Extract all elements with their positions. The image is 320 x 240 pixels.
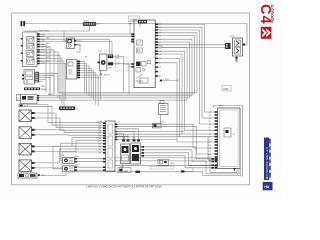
- ECU side stub wire: [160, 79, 178, 82]
- relay unit left pins: [21, 38, 23, 62]
- right block left pins: [215, 111, 218, 166]
- svg-text:111: 111: [98, 141, 101, 143]
- svg-text:2 GB: 2 GB: [115, 57, 120, 59]
- crank sensor 1313: [18, 173, 46, 178]
- svg-text:1135: 1135: [98, 121, 102, 123]
- svg-text:HU: HU: [264, 185, 270, 189]
- wire bottom band to nested corners: [115, 158, 215, 176]
- wire drop to ECU header: [130, 24, 140, 35]
- svg-text:1211: 1211: [98, 51, 102, 53]
- wires O2 sensors: [53, 157, 103, 170]
- wire top supply: [25, 24, 247, 45]
- junction dot on supply wire: [129, 23, 131, 25]
- wires throttle: [96, 39, 131, 94]
- warning box: [158, 159, 169, 165]
- svg-text:2017: 2017: [46, 57, 50, 59]
- ECU left pins: [131, 33, 134, 67]
- wire band mid-bottom: [115, 132, 215, 161]
- svg-text:8027: 8027: [46, 43, 50, 45]
- ground MC10: [99, 70, 110, 76]
- sidebar page box: [263, 182, 273, 190]
- ECU right pin labels: [158, 24, 162, 78]
- ignition coil 4: [19, 160, 37, 172]
- svg-text:1027: 1027: [46, 52, 50, 54]
- pin labels relay unit: [40, 34, 44, 65]
- O2 heater / canister valve component: [233, 38, 248, 56]
- svg-text:BB00: BB00: [41, 89, 47, 91]
- svg-text:1630: 1630: [223, 89, 229, 91]
- svg-text:C001: C001: [84, 20, 89, 22]
- right block 1630 gearbox ECU: [218, 108, 241, 169]
- relay unit sub-box pin dots: [32, 37, 33, 59]
- ECU 1320 main box: [134, 20, 155, 88]
- wire nested bottom right: [203, 169, 241, 176]
- ignition coil 3: [19, 143, 37, 155]
- module 1220 center-left with pin comb: [66, 60, 80, 79]
- svg-text:2027: 2027: [46, 61, 50, 63]
- svg-text:MC10: MC10: [104, 75, 111, 77]
- wire drop from strip: [89, 26, 91, 31]
- wires ECU fanout nested: [158, 24, 225, 142]
- ECU right pins: [155, 24, 158, 77]
- wire coil fan: [35, 113, 106, 168]
- label box 1630 above right block: [222, 86, 231, 92]
- wires ignition module: [115, 129, 212, 171]
- wire bus lower pair to right: [115, 124, 215, 154]
- svg-text:CITROËN: CITROËN: [270, 5, 274, 23]
- O2 sensor upstream 1350: [63, 156, 80, 164]
- ignition coil 1: [19, 110, 37, 122]
- module 1320 (left, second): [22, 70, 35, 85]
- wires module 1320: [39, 73, 58, 95]
- svg-text:1115: 1115: [120, 167, 124, 169]
- ground below canister valve: [235, 56, 238, 62]
- svg-text:C001: C001: [170, 163, 175, 165]
- splice mark bottom band: [181, 168, 193, 173]
- resistor module 1350b mid-right: [159, 101, 169, 124]
- ECU label box 1320: [129, 16, 140, 22]
- wire crank sensor: [40, 172, 136, 176]
- bottom strip pin labels: [98, 123, 101, 155]
- bottom connector strip 1135: [103, 121, 117, 171]
- wire mid bus: [39, 93, 197, 101]
- wire wrap around right block: [214, 106, 243, 177]
- wire bus lower pair: [28, 105, 105, 126]
- connector strip 1110b mid-left: [59, 107, 79, 111]
- throttle body 1211: [97, 54, 113, 70]
- svg-text:8017: 8017: [46, 38, 50, 40]
- svg-text:1376: 1376: [160, 122, 164, 124]
- svg-text:113: 113: [98, 147, 101, 149]
- connector block hatched right of module 1320: [35, 72, 40, 83]
- O2 sensor downstream 1360: [63, 164, 80, 172]
- ground arrow below right block: [233, 168, 235, 172]
- svg-text:1017: 1017: [46, 47, 50, 49]
- svg-text:115: 115: [98, 153, 101, 155]
- relay unit PSF1 (left tall box): [23, 32, 38, 67]
- svg-text:1 GC: 1 GC: [115, 64, 120, 66]
- pins of relay unit right side: [37, 33, 40, 64]
- wires relay K1: [25, 31, 90, 52]
- svg-text:MOTRONIC ME7.4.5: MOTRONIC ME7.4.5: [265, 147, 269, 179]
- connector clusters below right block: [212, 158, 218, 169]
- coil label 1110: [19, 104, 28, 107]
- ignition coil 2: [19, 127, 37, 139]
- logo chevron box: [261, 27, 272, 39]
- svg-text:1 1262: 1 1262: [163, 79, 169, 81]
- small box 1376: [153, 123, 162, 128]
- svg-text:M004: M004: [48, 94, 53, 96]
- O2 heater connector: [224, 41, 231, 49]
- label 1A30: [118, 168, 131, 173]
- zone box right of throttle: [116, 57, 129, 71]
- wires module 1220: [80, 61, 100, 106]
- sidebar blue strip: [264, 138, 271, 181]
- fuse strip BB00: [24, 88, 47, 91]
- module BSI bottom-left: [17, 95, 40, 104]
- right block pin labels: [209, 112, 212, 162]
- wire code labels: [41, 36, 234, 169]
- connector stub bottom band: [136, 166, 175, 173]
- wires from relay unit to right: [40, 34, 131, 106]
- svg-text:112: 112: [98, 144, 101, 146]
- ignition module pair 1115: [120, 140, 144, 165]
- connector C4 inline strip: [83, 22, 100, 26]
- connector J1 top-left: [21, 21, 26, 26]
- throttle connector labels: [115, 54, 120, 66]
- relay K1 (motor box center-left top): [66, 38, 82, 48]
- svg-text:1630: 1630: [219, 106, 223, 108]
- svg-text:1215: 1215: [230, 36, 234, 38]
- svg-text:114: 114: [98, 150, 101, 152]
- svg-text:1.6HDI 16V CLIMATIZACION AUTOM: 1.6HDI 16V CLIMATIZACION AUTOMATICA A PA…: [86, 185, 162, 188]
